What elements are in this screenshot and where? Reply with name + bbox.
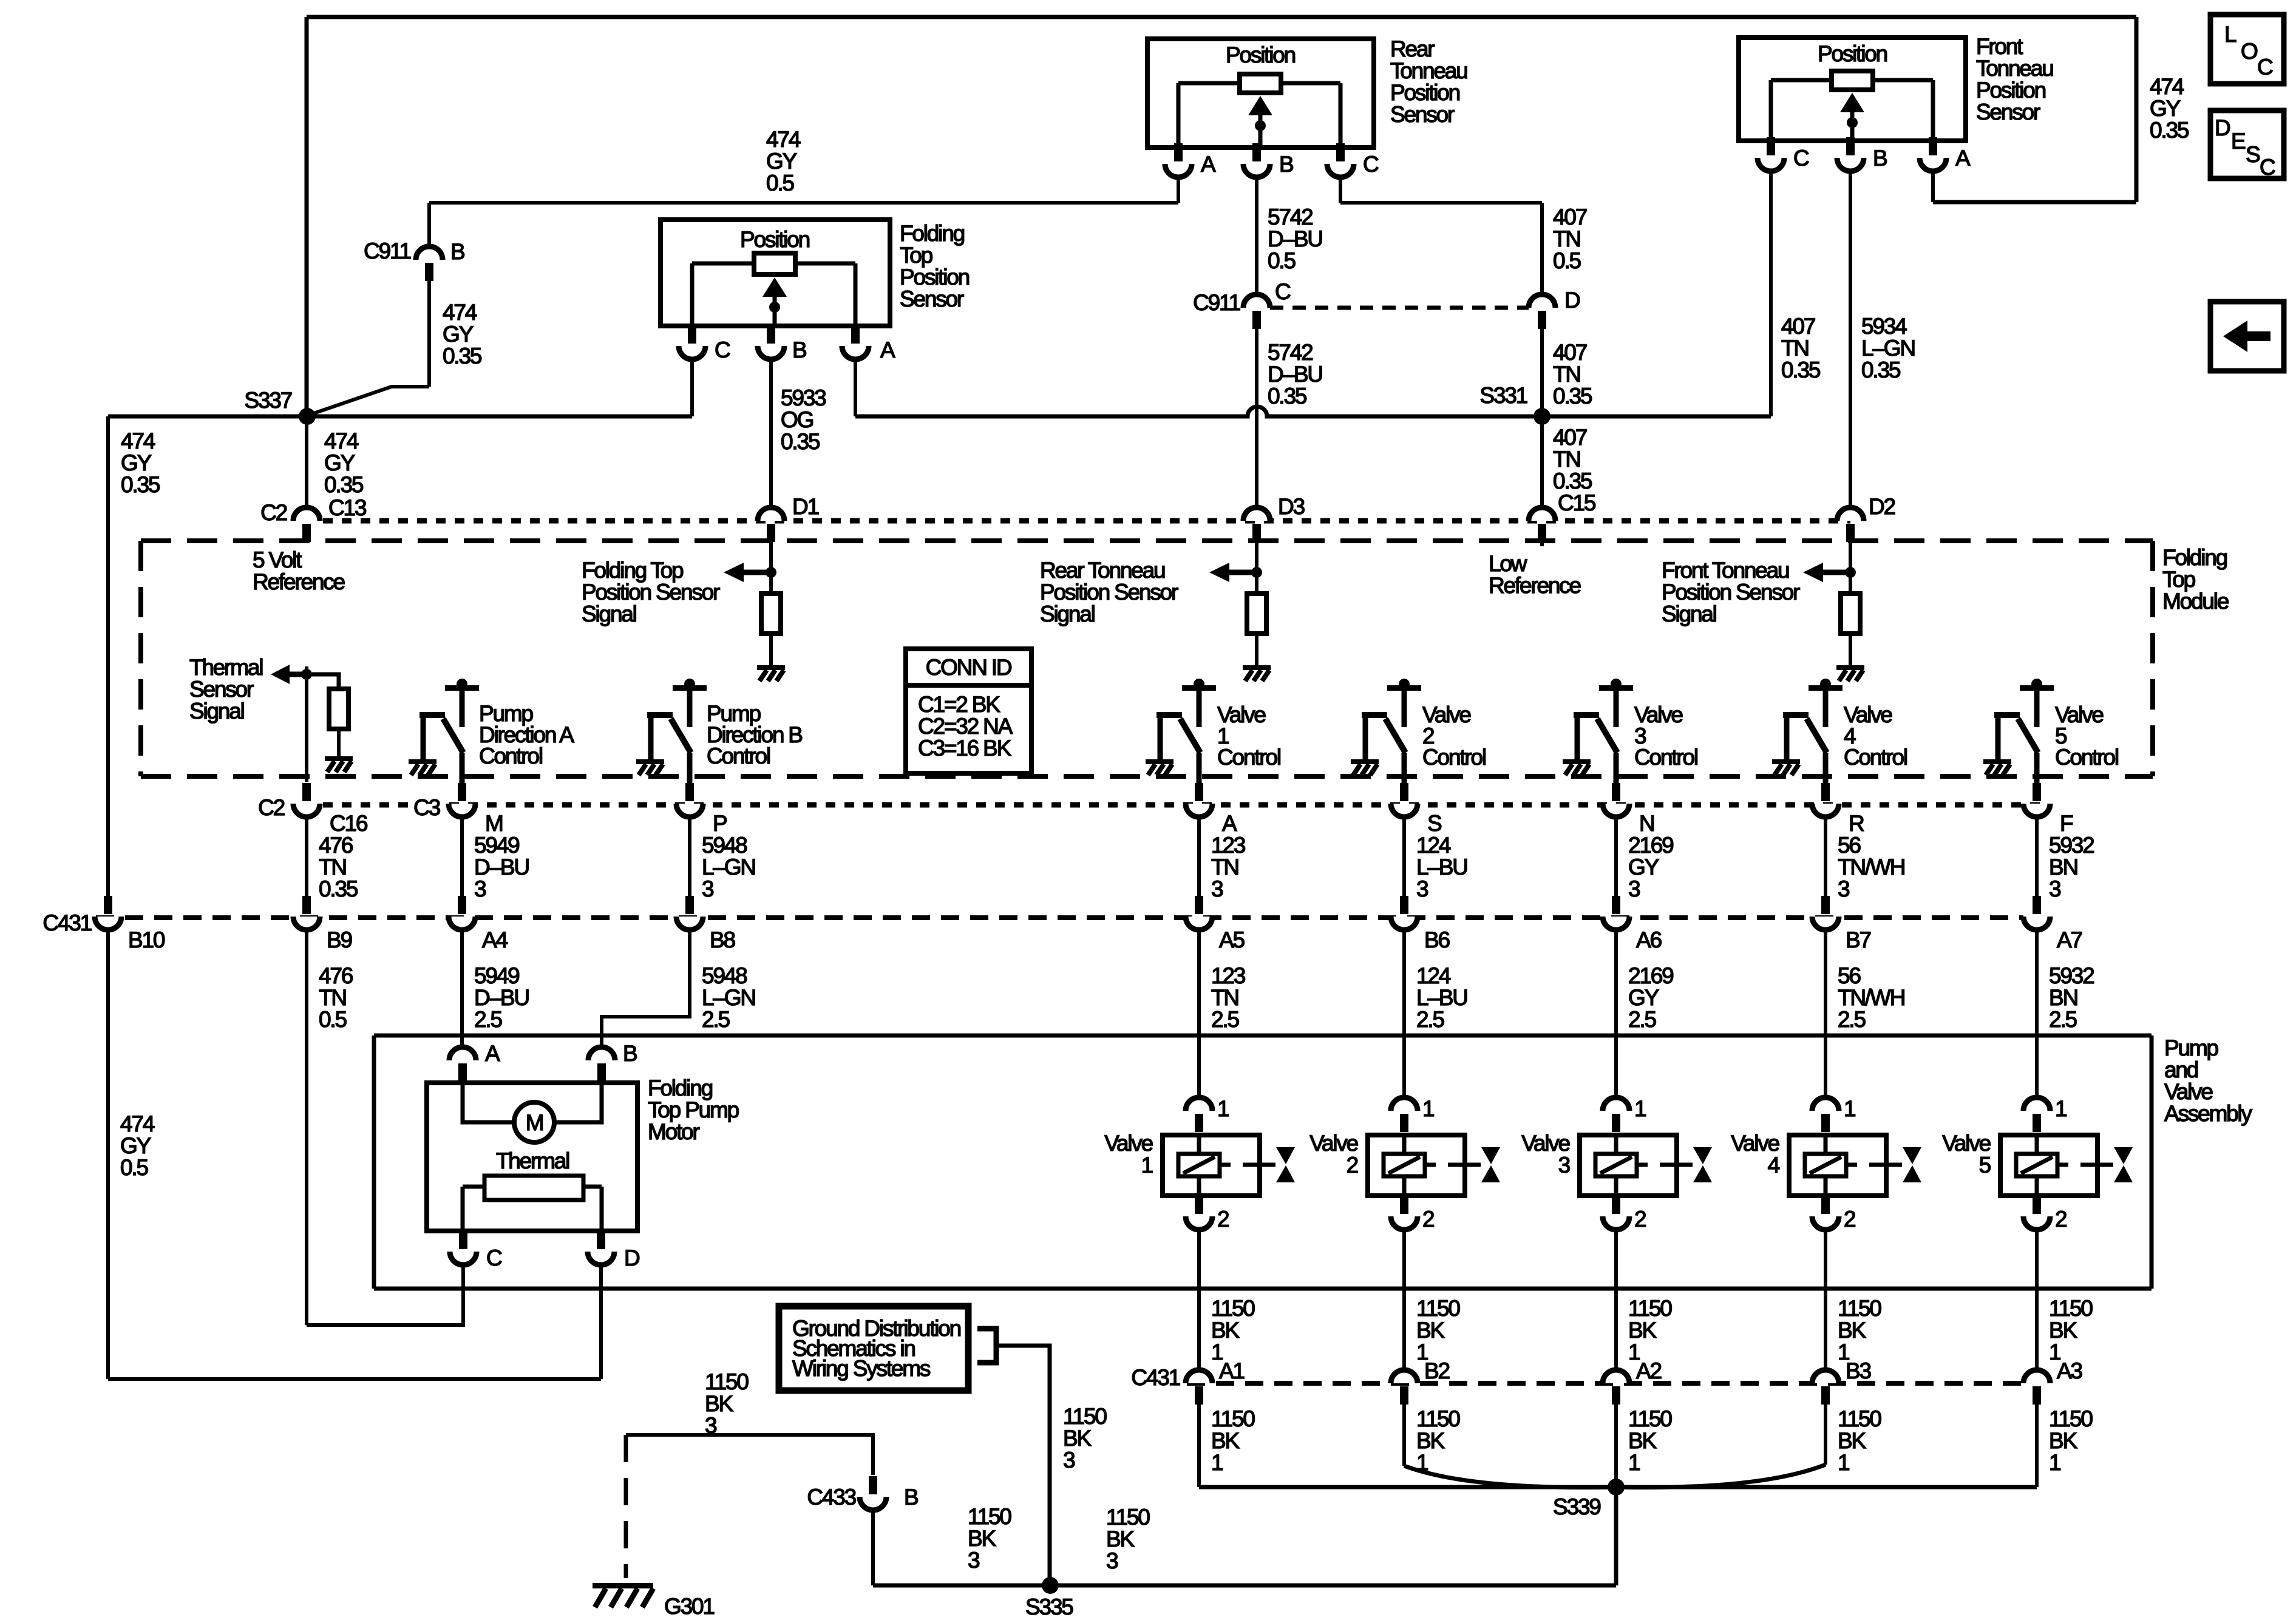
wire label 1150 BK 1 bbox=[1416, 1296, 1460, 1364]
svg-text:407: 407 bbox=[1781, 314, 1815, 339]
connector module pin C16 bbox=[293, 783, 320, 817]
svg-text:A5: A5 bbox=[1219, 927, 1245, 952]
svg-text:2: 2 bbox=[2055, 1207, 2067, 1232]
svg-text:Folding: Folding bbox=[900, 221, 965, 246]
connector C911 pin C bbox=[1243, 294, 1270, 329]
wire label 476 TN 0.35 bbox=[319, 833, 358, 901]
wire label 476 TN 0.5 bbox=[319, 963, 353, 1032]
svg-text:1150: 1150 bbox=[968, 1504, 1011, 1529]
svg-text:Position: Position bbox=[1226, 42, 1296, 67]
svg-text:C2=32 NA: C2=32 NA bbox=[918, 714, 1013, 739]
svg-text:1150: 1150 bbox=[1211, 1406, 1255, 1431]
svg-text:Control: Control bbox=[1634, 745, 1697, 770]
svg-text:TN: TN bbox=[1553, 447, 1580, 472]
wire label 1150 BK 1 bbox=[2049, 1406, 2093, 1475]
svg-text:R: R bbox=[1849, 811, 1864, 836]
valve 1 label bbox=[1104, 1131, 1152, 1178]
svg-text:C: C bbox=[1363, 152, 1379, 177]
wire C433 to S335 bbox=[871, 1510, 875, 1585]
wire label 2169 GY 2.5 bbox=[1628, 963, 1673, 1032]
svg-text:BK: BK bbox=[1838, 1318, 1866, 1343]
svg-text:GY: GY bbox=[443, 322, 474, 347]
wire label 407 TN 0.35 bbox=[1781, 314, 1821, 382]
svg-text:Tonneau: Tonneau bbox=[1390, 58, 1467, 83]
connector valve 2 pin 2 bbox=[1391, 1196, 1418, 1230]
connector C431 pin A7 bbox=[2023, 896, 2050, 930]
splice S337 bbox=[299, 408, 316, 425]
svg-text:1150: 1150 bbox=[1838, 1296, 1881, 1321]
rear tonneau position sensor bbox=[1147, 39, 1374, 147]
svg-text:Thermal: Thermal bbox=[496, 1148, 569, 1173]
svg-text:1150: 1150 bbox=[1063, 1404, 1107, 1429]
wire label 5948 L–GN 3 bbox=[702, 833, 755, 901]
svg-text:1: 1 bbox=[1634, 1096, 1646, 1121]
svg-text:0.5: 0.5 bbox=[319, 1007, 347, 1032]
wire B2 down bbox=[1402, 1405, 1406, 1466]
connector D2 bbox=[1837, 507, 1864, 542]
connector C431 pin B10 bbox=[95, 896, 121, 930]
wire bbox=[1402, 817, 1406, 898]
wire D3 signal bbox=[1255, 541, 1258, 594]
svg-text:2: 2 bbox=[1347, 1153, 1358, 1178]
splice S335 bbox=[1042, 1577, 1059, 1594]
svg-text:Signal: Signal bbox=[189, 699, 244, 724]
switch valve 3 control bbox=[1574, 679, 1633, 784]
svg-text:1: 1 bbox=[2049, 1450, 2060, 1475]
svg-text:BK: BK bbox=[1628, 1428, 1657, 1453]
svg-text:Signal: Signal bbox=[582, 602, 636, 626]
svg-text:C2: C2 bbox=[260, 500, 287, 525]
svg-text:1150: 1150 bbox=[1838, 1406, 1881, 1431]
svg-text:Control: Control bbox=[1217, 745, 1280, 770]
wire label 5933 OG 0.35 bbox=[781, 385, 826, 454]
svg-text:Position: Position bbox=[740, 227, 810, 252]
connector C431 pin A4 bbox=[449, 896, 475, 930]
svg-text:1: 1 bbox=[1141, 1153, 1153, 1178]
connector pin B rear sensor bbox=[1243, 143, 1270, 177]
back-arrow button bbox=[2210, 302, 2284, 371]
svg-text:2.5: 2.5 bbox=[1211, 1007, 1239, 1032]
svg-text:5932: 5932 bbox=[2049, 833, 2094, 858]
svg-text:BK: BK bbox=[1211, 1428, 1240, 1453]
wire 407 TN bus with hop over 5742 bbox=[855, 407, 1771, 416]
wire label 1150 BK 1 bbox=[1838, 1406, 1881, 1475]
svg-text:1150: 1150 bbox=[1106, 1505, 1150, 1530]
svg-text:5948: 5948 bbox=[702, 963, 747, 988]
svg-text:TN/WH: TN/WH bbox=[1838, 855, 1904, 879]
svg-text:D: D bbox=[1564, 288, 1580, 313]
wire front A down bbox=[1931, 171, 1935, 202]
svg-text:D–BU: D–BU bbox=[1268, 226, 1322, 251]
svg-text:3: 3 bbox=[1063, 1448, 1075, 1473]
wire thermal right drop bbox=[600, 1187, 604, 1231]
splice S331 bbox=[1533, 408, 1550, 425]
svg-text:C: C bbox=[486, 1246, 502, 1270]
svg-text:123: 123 bbox=[1211, 833, 1245, 858]
svg-text:124: 124 bbox=[1416, 963, 1451, 988]
svg-text:D: D bbox=[2215, 115, 2230, 140]
ground front signal resistor bbox=[1836, 665, 1864, 681]
svg-text:123: 123 bbox=[1211, 963, 1245, 988]
svg-text:0.35: 0.35 bbox=[1553, 384, 1592, 408]
svg-text:2169: 2169 bbox=[1628, 963, 1673, 988]
wire A to motor bbox=[463, 1081, 514, 1122]
wire valve feed bbox=[1402, 930, 1406, 1099]
resistor folding signal bbox=[761, 594, 781, 634]
connector C431 pin B8 bbox=[676, 896, 703, 930]
svg-text:3: 3 bbox=[705, 1413, 716, 1438]
connector pin C folding sensor bbox=[679, 325, 705, 359]
connector valve 5 pin 2 bbox=[2023, 1196, 2050, 1230]
svg-text:1: 1 bbox=[1422, 1096, 1434, 1121]
svg-text:124: 124 bbox=[1416, 833, 1451, 858]
svg-text:5: 5 bbox=[1979, 1153, 1991, 1178]
wire ground box to S335 bbox=[996, 1346, 1050, 1585]
svg-text:Sensor: Sensor bbox=[1390, 102, 1455, 127]
svg-text:A1: A1 bbox=[1219, 1358, 1244, 1383]
wire bbox=[305, 817, 308, 898]
connector C431 pin A5 bbox=[1186, 896, 1212, 930]
svg-text:Position: Position bbox=[1818, 41, 1887, 66]
svg-text:D1: D1 bbox=[792, 494, 819, 519]
wire bbox=[688, 817, 691, 898]
wire label 474 GY 0.35 right bbox=[2150, 74, 2189, 143]
svg-text:476: 476 bbox=[319, 833, 353, 858]
svg-text:BK: BK bbox=[1416, 1318, 1445, 1343]
svg-text:A7: A7 bbox=[2057, 927, 2082, 952]
svg-text:A2: A2 bbox=[1636, 1358, 1661, 1383]
wire label 1150 BK 3 bbox=[705, 1369, 749, 1438]
svg-text:5934: 5934 bbox=[1861, 314, 1907, 339]
svg-text:A3: A3 bbox=[2057, 1358, 2082, 1383]
wire right drop to front sensor A bbox=[2135, 17, 2139, 202]
svg-text:A: A bbox=[1955, 146, 1971, 171]
wire label 1150 BK 3 right of S335 bbox=[1106, 1505, 1150, 1573]
svg-text:3: 3 bbox=[1838, 876, 1849, 901]
label 5 volt reference bbox=[253, 547, 345, 594]
wire label 56 TN/WH 2.5 bbox=[1838, 963, 1904, 1032]
svg-text:0.35: 0.35 bbox=[1553, 469, 1592, 493]
svg-text:BK: BK bbox=[2049, 1428, 2077, 1453]
label valve 4 control bbox=[1844, 702, 1907, 770]
svg-text:F: F bbox=[2060, 811, 2073, 836]
svg-text:0.35: 0.35 bbox=[121, 472, 160, 497]
svg-text:S331: S331 bbox=[1479, 383, 1527, 408]
svg-text:0.35: 0.35 bbox=[1861, 358, 1901, 382]
svg-text:1: 1 bbox=[1211, 1450, 1223, 1475]
wire 5742 D-BU 0.5 bbox=[1255, 177, 1258, 293]
wire label 5949 D–BU 2.5 bbox=[474, 963, 529, 1032]
svg-text:C911: C911 bbox=[1193, 290, 1240, 315]
off-page connector bracket bbox=[977, 1329, 996, 1363]
svg-text:GY: GY bbox=[2150, 96, 2181, 121]
wire valve return bbox=[1402, 1230, 1406, 1370]
wire dotted connector row C2 bbox=[323, 518, 1850, 524]
wire resistor to ground bbox=[769, 634, 773, 665]
connector pin A front sensor bbox=[1920, 137, 1946, 171]
wire label 1150 BK 1 bbox=[1628, 1406, 1672, 1475]
switch valve 2 control bbox=[1362, 679, 1421, 784]
connector C911 pin B bbox=[416, 246, 443, 281]
svg-text:Rear: Rear bbox=[1390, 36, 1435, 61]
svg-text:3: 3 bbox=[474, 876, 486, 901]
svg-text:GY: GY bbox=[766, 149, 797, 174]
svg-text:B: B bbox=[623, 1041, 637, 1066]
connector pin A rear sensor bbox=[1165, 143, 1192, 177]
svg-text:L–BU: L–BU bbox=[1416, 855, 1467, 879]
wire dotted connector row module bottom right part bbox=[449, 802, 2040, 808]
svg-text:2: 2 bbox=[1422, 1207, 1434, 1232]
svg-text:GY: GY bbox=[324, 450, 355, 475]
svg-text:5932: 5932 bbox=[2049, 963, 2094, 988]
wire label 5932 BN 3 bbox=[2049, 833, 2094, 901]
svg-text:A: A bbox=[485, 1041, 500, 1066]
valve 2 (solenoid) bbox=[1368, 1135, 1500, 1196]
svg-text:C13: C13 bbox=[328, 495, 366, 520]
svg-text:2169: 2169 bbox=[1628, 833, 1673, 858]
wire label 474 GY 0.35 left wire bbox=[121, 429, 160, 497]
svg-text:1150: 1150 bbox=[1211, 1296, 1255, 1321]
svg-text:0.5: 0.5 bbox=[120, 1155, 148, 1180]
svg-text:474: 474 bbox=[443, 300, 477, 325]
wire label 1150 BK 1 bbox=[1838, 1296, 1881, 1364]
svg-text:S: S bbox=[1427, 811, 1441, 836]
svg-text:2.5: 2.5 bbox=[474, 1007, 502, 1032]
wire dashed C911 C-D bbox=[1270, 306, 1529, 310]
ground distribution schematics box bbox=[779, 1306, 968, 1391]
wire 5934 L-GN 0.35 front B down bbox=[1849, 171, 1852, 507]
wire label 123 TN 3 bbox=[1211, 833, 1245, 901]
svg-text:5949: 5949 bbox=[474, 833, 519, 858]
svg-text:1: 1 bbox=[1838, 1450, 1849, 1475]
svg-text:Control: Control bbox=[707, 744, 770, 768]
svg-text:2.5: 2.5 bbox=[1416, 1007, 1444, 1032]
wire label 407 TN 0.35 below S331 bbox=[1553, 425, 1592, 493]
wire B3 curve to S339 bbox=[1616, 1465, 1826, 1488]
svg-text:5742: 5742 bbox=[1268, 340, 1313, 365]
switch pump direction B control ground bbox=[636, 759, 664, 775]
svg-text:Front: Front bbox=[1976, 34, 2023, 59]
wire 474 GY bus left bbox=[108, 415, 307, 419]
svg-text:C15: C15 bbox=[1558, 490, 1596, 515]
resistor rear signal bbox=[1247, 594, 1266, 634]
svg-text:GY: GY bbox=[1628, 855, 1659, 879]
wire branch to thermal resistor bbox=[307, 674, 339, 689]
wire dashed to G301 bbox=[624, 1435, 628, 1578]
wire 474 GY 0.5 horizontal bbox=[429, 201, 1178, 205]
connector valve 3 pin 1 bbox=[1603, 1097, 1629, 1132]
svg-text:Motor: Motor bbox=[648, 1119, 699, 1144]
svg-text:476: 476 bbox=[319, 963, 353, 988]
svg-text:and: and bbox=[2164, 1057, 2198, 1082]
wire 407 TN 0.5 drop bbox=[1540, 203, 1544, 293]
switch pump direction A control ground bbox=[409, 759, 436, 775]
label folding top position sensor bbox=[900, 221, 970, 311]
wire B to motor bbox=[554, 1081, 602, 1122]
rear tonneau position sensor signal tap bbox=[1209, 563, 1262, 582]
wire 474 GY 0.5 left drop bbox=[106, 930, 110, 1379]
svg-text:Pump: Pump bbox=[2164, 1035, 2218, 1060]
wire 5933 OG 0.35 bbox=[769, 359, 773, 507]
ground rear signal resistor bbox=[1243, 665, 1271, 681]
switch pump direction A control bbox=[419, 679, 479, 784]
svg-text:0.35: 0.35 bbox=[319, 876, 358, 901]
svg-text:A: A bbox=[880, 337, 895, 362]
wire 474 GY top run bbox=[307, 15, 2136, 19]
connector pin C front sensor bbox=[1758, 137, 1784, 171]
wire valve feed bbox=[1197, 930, 1201, 1099]
label valve 3 control bbox=[1634, 702, 1697, 770]
svg-text:1150: 1150 bbox=[1628, 1406, 1672, 1431]
wire to C911 B bbox=[427, 203, 431, 246]
resistor thermal pull-up bbox=[329, 689, 348, 729]
svg-text:BK: BK bbox=[1838, 1428, 1866, 1453]
splice S339 bbox=[1608, 1479, 1625, 1496]
label folding top position sensor signal bbox=[582, 558, 720, 626]
label rear tonneau position sensor signal bbox=[1040, 558, 1178, 626]
wire folding C down bbox=[690, 359, 694, 416]
svg-text:5 Volt: 5 Volt bbox=[253, 547, 302, 572]
wire A3 down bbox=[2035, 1405, 2039, 1487]
connector D1 bbox=[758, 507, 784, 542]
svg-text:Sensor: Sensor bbox=[189, 677, 254, 702]
wire label 1150 BK 1 bbox=[1628, 1296, 1672, 1364]
svg-text:L: L bbox=[2224, 22, 2237, 47]
switch valve 2 control ground bbox=[1351, 759, 1379, 775]
svg-text:0.35: 0.35 bbox=[2150, 118, 2189, 143]
valve 3 (solenoid) bbox=[1580, 1135, 1712, 1196]
svg-text:Control: Control bbox=[1422, 745, 1486, 770]
connector C431 pin B9 bbox=[293, 896, 320, 930]
svg-text:Thermal: Thermal bbox=[189, 655, 262, 680]
svg-text:Sensor: Sensor bbox=[1976, 100, 2040, 124]
svg-text:56: 56 bbox=[1838, 963, 1860, 988]
svg-text:A: A bbox=[1222, 811, 1237, 836]
svg-text:BK: BK bbox=[1628, 1318, 1657, 1343]
thermal sensor signal tap bbox=[271, 665, 312, 684]
wire label 5949 D–BU 3 bbox=[474, 833, 529, 901]
svg-text:C3=16 BK: C3=16 BK bbox=[918, 736, 1012, 761]
svg-text:S339: S339 bbox=[1553, 1494, 1600, 1519]
wire B2 curve to S339 bbox=[1404, 1466, 1616, 1488]
svg-text:1: 1 bbox=[1628, 1450, 1640, 1475]
connector C431 pin B7 bbox=[1812, 896, 1839, 930]
wire label 124 L–BU 3 bbox=[1416, 833, 1467, 901]
svg-text:Valve: Valve bbox=[1521, 1131, 1569, 1156]
svg-text:Front Tonneau: Front Tonneau bbox=[1662, 558, 1789, 583]
svg-text:BK: BK bbox=[2049, 1318, 2077, 1343]
wire label 1150 BK 1 bbox=[1211, 1406, 1255, 1475]
wire to front sensor pin A bbox=[1933, 200, 2136, 205]
switch valve 5 control bbox=[1994, 679, 2054, 784]
svg-text:B: B bbox=[1873, 146, 1887, 171]
svg-text:1: 1 bbox=[2055, 1096, 2067, 1121]
ground thermal resistor bbox=[325, 756, 353, 772]
svg-text:C1=2 BK: C1=2 BK bbox=[918, 692, 1000, 717]
wire valve return bbox=[1614, 1230, 1618, 1370]
connector C431 pin B2 bbox=[1391, 1370, 1418, 1405]
label pump direction B control bbox=[707, 701, 802, 768]
valve 4 (solenoid) bbox=[1789, 1135, 1921, 1196]
label low reference bbox=[1489, 551, 1581, 598]
svg-text:Position: Position bbox=[900, 265, 970, 290]
wire ground bus bbox=[873, 1584, 1616, 1588]
wire label 407 TN 0.5 bbox=[1553, 205, 1587, 273]
svg-text:3: 3 bbox=[1106, 1548, 1118, 1573]
svg-text:TN: TN bbox=[319, 985, 346, 1010]
wire label 407 TN 0.35 above S331 bbox=[1553, 340, 1592, 408]
svg-text:Folding: Folding bbox=[648, 1076, 713, 1100]
svg-text:M: M bbox=[485, 811, 503, 836]
wire 474 GY 0.35 left drop bbox=[106, 416, 110, 900]
svg-text:C911: C911 bbox=[364, 239, 411, 263]
connector valve 4 pin 1 bbox=[1812, 1097, 1839, 1132]
label pump and valve assembly bbox=[2164, 1035, 2252, 1126]
connector pump pin B bbox=[588, 1047, 615, 1082]
svg-text:0.35: 0.35 bbox=[781, 429, 820, 454]
label valve 2 control bbox=[1422, 702, 1486, 770]
svg-text:Position: Position bbox=[1390, 80, 1460, 105]
svg-text:Wiring Systems: Wiring Systems bbox=[792, 1356, 931, 1381]
wire dashed C431 row bbox=[96, 915, 2023, 920]
LOC box bbox=[2210, 15, 2284, 84]
motor M circle bbox=[514, 1102, 554, 1142]
svg-text:2.5: 2.5 bbox=[2049, 1007, 2077, 1032]
svg-text:474: 474 bbox=[120, 1111, 155, 1136]
svg-text:1: 1 bbox=[1844, 1096, 1855, 1121]
svg-text:A: A bbox=[1201, 152, 1216, 177]
svg-text:GY: GY bbox=[1628, 985, 1659, 1010]
connector module pin A bbox=[1186, 783, 1212, 817]
svg-text:Top: Top bbox=[900, 243, 933, 268]
connector valve 1 pin 2 bbox=[1186, 1196, 1212, 1230]
CONN ID table bbox=[906, 649, 1031, 773]
svg-text:0.35: 0.35 bbox=[1268, 384, 1307, 408]
svg-text:1150: 1150 bbox=[1628, 1296, 1672, 1321]
svg-text:A6: A6 bbox=[1636, 927, 1661, 952]
svg-text:4: 4 bbox=[1768, 1153, 1780, 1178]
svg-text:B9: B9 bbox=[327, 927, 352, 952]
wire A1 down bbox=[1197, 1405, 1201, 1487]
wire 5948 B8 to pump B bbox=[602, 930, 690, 1048]
wire label 1150 BK 1 bbox=[1211, 1296, 1255, 1364]
svg-text:B: B bbox=[792, 337, 806, 362]
svg-text:BN: BN bbox=[2049, 985, 2077, 1010]
wire to S337 bbox=[308, 387, 429, 415]
connector valve 3 pin 2 bbox=[1603, 1196, 1629, 1230]
wire label 1150 BK 1 bbox=[1416, 1406, 1460, 1475]
wire label 124 L–BU 2.5 bbox=[1416, 963, 1467, 1032]
wire resistor to ground bbox=[1849, 634, 1852, 665]
wire 5742 D-BU 0.35 bbox=[1255, 327, 1258, 507]
svg-text:Rear Tonneau: Rear Tonneau bbox=[1040, 558, 1165, 583]
svg-text:Valve: Valve bbox=[1104, 1131, 1152, 1156]
svg-text:3: 3 bbox=[1558, 1153, 1570, 1178]
wire label 5932 BN 2.5 bbox=[2049, 963, 2094, 1032]
wire label 1150 BK 1 bbox=[2049, 1296, 2093, 1364]
svg-text:Sensor: Sensor bbox=[900, 286, 964, 311]
svg-text:N: N bbox=[1639, 811, 1654, 836]
wire label 474 GY 0.35 bbox=[443, 300, 482, 368]
label folding top pump motor bbox=[648, 1076, 739, 1144]
svg-text:5933: 5933 bbox=[781, 385, 826, 410]
label valve 1 control bbox=[1217, 702, 1280, 770]
svg-text:BK: BK bbox=[1063, 1426, 1092, 1451]
svg-text:BK: BK bbox=[1416, 1428, 1445, 1453]
label front tonneau position sensor bbox=[1976, 34, 2053, 124]
svg-text:1150: 1150 bbox=[705, 1369, 749, 1394]
svg-text:2: 2 bbox=[1634, 1207, 1646, 1232]
